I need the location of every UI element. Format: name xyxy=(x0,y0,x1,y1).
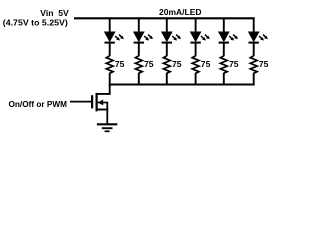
LED D3 light emission arrows xyxy=(172,35,181,41)
wire resistor R1 to bottom rail xyxy=(109,73,111,86)
wire LED D4 cathode to resistor R4 xyxy=(195,43,197,57)
svg-text:75: 75 xyxy=(115,59,125,69)
svg-text:20mA/LED: 20mA/LED xyxy=(159,7,202,17)
LED D2 xyxy=(134,32,144,43)
wire LED D2 cathode to resistor R2 xyxy=(138,43,140,57)
LED D5 light emission arrows xyxy=(229,35,238,41)
LED D5 anode wire from top rail xyxy=(223,17,225,32)
LED D5 xyxy=(219,32,229,43)
LED D1 anode wire from top rail xyxy=(109,17,111,32)
wire bottom rail xyxy=(109,84,255,86)
LED D4 light emission arrows xyxy=(201,35,210,41)
wire resistor R6 to bottom rail xyxy=(253,73,255,86)
LED D2 light emission arrows xyxy=(144,35,153,41)
LED D1 xyxy=(105,32,115,43)
svg-text:75: 75 xyxy=(201,59,211,69)
resistor R5 xyxy=(220,56,227,73)
LED D6 xyxy=(249,32,259,43)
resistor R3 xyxy=(163,56,170,73)
LED D6 anode wire from top rail xyxy=(253,17,255,32)
LED D1 light emission arrows xyxy=(115,35,124,41)
LED D3 anode wire from top rail xyxy=(166,17,168,32)
wire resistor R3 to bottom rail xyxy=(166,73,168,86)
resistor R1 xyxy=(106,56,113,73)
wire LED D3 cathode to resistor R3 xyxy=(166,43,168,57)
wire bottom rail to MOSFET drain xyxy=(97,85,110,94)
wire gate lead xyxy=(70,101,92,103)
wire resistor R4 to bottom rail xyxy=(195,73,197,86)
svg-text:75: 75 xyxy=(229,59,239,69)
svg-text:On/Off or PWM: On/Off or PWM xyxy=(9,99,68,109)
wire top supply rail xyxy=(74,17,255,19)
svg-text:75: 75 xyxy=(144,59,154,69)
svg-text:75: 75 xyxy=(259,59,269,69)
svg-text:Vin 5V: Vin 5V xyxy=(40,8,69,18)
LED D6 light emission arrows xyxy=(259,35,268,41)
wire LED D5 cathode to resistor R5 xyxy=(223,43,225,57)
resistor R6 xyxy=(250,56,257,73)
wire resistor R2 to bottom rail xyxy=(138,73,140,86)
wire LED D6 cathode to resistor R6 xyxy=(253,43,255,57)
resistor R4 xyxy=(192,56,199,73)
wire resistor R5 to bottom rail xyxy=(223,73,225,86)
wire MOSFET source to ground xyxy=(106,110,108,124)
svg-text:75: 75 xyxy=(172,59,182,69)
ground xyxy=(97,124,117,131)
resistor R2 xyxy=(135,56,142,73)
transistor Q1 N-MOSFET xyxy=(92,93,108,112)
svg-text:(4.75V to 5.25V): (4.75V to 5.25V) xyxy=(3,18,68,28)
LED D4 xyxy=(190,32,200,43)
wire LED D1 cathode to resistor R1 xyxy=(109,43,111,57)
LED D3 xyxy=(162,32,172,43)
LED D4 anode wire from top rail xyxy=(195,17,197,32)
LED D2 anode wire from top rail xyxy=(138,17,140,32)
